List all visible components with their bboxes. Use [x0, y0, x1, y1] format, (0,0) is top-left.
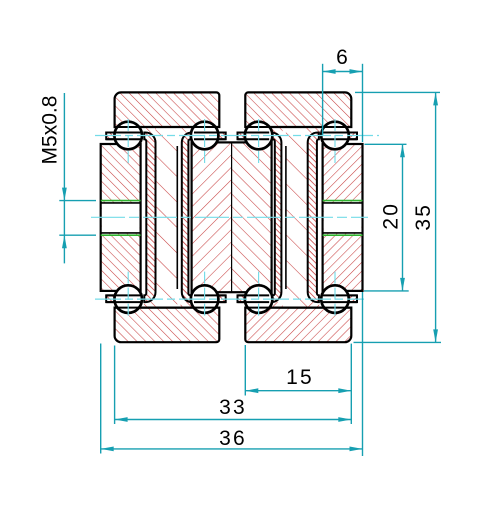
- dimension 33 lines: [115, 344, 352, 424]
- svg-text:M5x0.8: M5x0.8: [39, 96, 62, 165]
- ball vertical centerline bottom 2: [204, 272, 206, 316]
- outer rail bottom-left flange block: [115, 308, 220, 343]
- strip edge lines bottom 3: [238, 295, 270, 302]
- left raceway channel: [144, 133, 155, 303]
- middle-right raceway channel: [238, 133, 282, 303]
- strip edge lines top 3: [238, 133, 270, 140]
- ball bearing B4: [321, 122, 349, 150]
- ball vertical centerline top 3: [258, 119, 260, 163]
- ball bearing B2: [191, 122, 219, 150]
- dimension 15 lines: [245, 345, 351, 396]
- strip edge lines top 4: [323, 133, 357, 140]
- M5 tapped hole right: [323, 201, 363, 236]
- svg-text:35: 35: [412, 203, 435, 231]
- dimension 6 lines: [323, 64, 363, 142]
- block top edge line bottom-right: [245, 307, 351, 309]
- block nose top: [307, 128, 319, 133]
- ball vertical centerline top 2: [204, 119, 206, 163]
- ball vertical centerline bottom 1: [127, 272, 129, 316]
- block nose top: [181, 128, 195, 133]
- M5 tapped hole left: [101, 201, 141, 236]
- central bar outline: [192, 142, 272, 292]
- right rail web bar: [323, 144, 363, 291]
- block bottom edge line top-right: [245, 126, 351, 128]
- dimension 36 lines: [101, 292, 363, 456]
- ball bearing B6: [191, 285, 219, 313]
- cage boundary line right: [285, 146, 287, 289]
- strip edge lines top 2: [194, 133, 226, 140]
- svg-text:33: 33: [219, 396, 247, 419]
- ball vertical centerline bottom 4: [334, 272, 336, 316]
- horizontal part centerline: [91, 216, 368, 218]
- outer rail top-right flange block: [245, 92, 351, 127]
- block top edge line bottom-left: [115, 307, 220, 309]
- block nose bottom: [307, 302, 319, 307]
- strip edge lines bottom 1: [106, 295, 140, 302]
- left rail web bar: [101, 144, 141, 291]
- ball bearing B1: [114, 122, 142, 150]
- outer rail top-left flange block: [115, 92, 220, 127]
- block nose bottom: [144, 302, 156, 307]
- ball cage gap right: [286, 128, 308, 307]
- intermediate rail central bar left half: [192, 142, 232, 292]
- central bar joint line: [231, 142, 233, 292]
- strip edge lines top 1: [106, 133, 140, 140]
- dimension 20 lines: [364, 144, 409, 291]
- dimension M5 lines: [59, 93, 96, 263]
- ball bearing B5: [114, 285, 142, 313]
- outer rail bottom-right flange block: [245, 308, 351, 343]
- block nose top: [269, 128, 283, 133]
- left bar top raceway strip: [106, 133, 140, 140]
- block nose bottom: [269, 302, 283, 307]
- strip edge lines bottom 2: [194, 295, 226, 302]
- svg-text:36: 36: [219, 427, 247, 450]
- ball bearing B8: [321, 285, 349, 313]
- svg-text:20: 20: [379, 202, 402, 230]
- top ball row centerline: [95, 135, 379, 137]
- ball vertical centerline top 4: [334, 119, 336, 163]
- ball vertical centerline top 1: [127, 119, 129, 163]
- ball vertical centerline bottom 3: [258, 272, 260, 316]
- ball bearing B7: [245, 285, 273, 313]
- block nose bottom: [181, 302, 195, 307]
- block bottom edge line top-left: [115, 126, 220, 128]
- svg-text:15: 15: [286, 366, 314, 389]
- block nose top: [144, 128, 156, 133]
- cage boundary line left: [176, 146, 178, 289]
- ball cage gap left: [156, 128, 178, 307]
- middle-left raceway channel: [182, 133, 226, 303]
- strip edge lines bottom 4: [323, 295, 357, 302]
- right bar top raceway strip: [323, 133, 357, 140]
- right bar bottom raceway strip: [323, 295, 357, 302]
- bottom ball row centerline: [95, 298, 364, 300]
- dimension 35 lines: [354, 92, 442, 342]
- svg-text:6: 6: [336, 46, 348, 69]
- right raceway channel: [308, 133, 319, 303]
- ball bearing B3: [245, 122, 273, 150]
- intermediate rail central bar right half: [232, 142, 272, 292]
- left bar bottom raceway strip: [106, 295, 140, 302]
